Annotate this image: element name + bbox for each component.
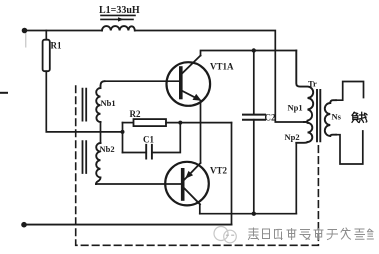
svg-text:Nb1: Nb1 [101,98,116,108]
watermark text 莫日根电气电子工作室 drawn glyphs [249,228,374,240]
terminal DC+ (top-left dot) [22,28,28,34]
capacitor C2 top lead [253,51,255,115]
svg-text:Nb2: Nb2 [100,144,115,154]
transistor VT2 lower diagonal [185,189,201,205]
winding Np1 (feed from collector rail, humps toward core) [296,51,313,123]
stray scan mark at left edge [0,92,7,94]
capacitor C2 bottom lead down to emitter rail [253,120,255,214]
svg-text:R2: R2 [130,109,141,119]
transistor VT1A collector diagonal [182,56,201,75]
wire: VT1A emitter to VT2 collector column [200,101,202,163]
wire: VT1A collector up to collector rail across to Np1 feed [201,51,297,56]
wire: R2 left lead [123,122,134,124]
transistor VT2 base bar [181,170,185,199]
winding Nb2 [96,143,101,184]
label 负载 (load) drawn glyphs [352,112,367,122]
watermark logo (two overlapping circles) [214,227,236,243]
svg-text:L1=33uH: L1=33uH [99,5,140,16]
wire: R1 bottom lead down and right to base bias node [46,71,122,132]
feedback transformer core (lower pair beside Nb2) [83,141,87,173]
resistor R2 body [134,119,167,126]
wire: Np2 return down and left along emitter rail [295,143,297,214]
L1 arrow line with right-pointing head [101,18,133,20]
svg-text:Np1: Np1 [288,103,303,113]
wire: Ns top lead to load [336,82,364,101]
wire: base node column (R2 left to C1 left) [122,123,124,153]
wire: C1 right lead and riser to R2 right node [152,123,180,153]
svg-text:VT2: VT2 [210,166,228,176]
wire: emitter rail to Np2 return [200,213,296,215]
faint stub under DC+ terminal [25,34,27,48]
inductor L1 coil [102,26,135,30]
wire: top rail from DC+ to L1 [25,30,103,32]
resistor R1 body [43,40,50,71]
transistor VT1A circle [167,62,211,106]
transistor VT1A emitter diagonal with arrow [182,91,200,100]
L1 underline [101,14,135,16]
dashed module border [76,86,319,245]
wire: bottom rail [24,224,232,226]
wire: R2/C1 return column down to bottom rail [231,123,233,225]
capacitor C1 plates [146,145,152,159]
node: C2 top junction dot [252,48,256,52]
terminal DC- (bottom-left dot) [21,222,27,228]
wire: VT2 emitter down to emitter rail [199,205,201,214]
winding Ns [325,100,336,136]
winding Np2 [296,123,312,143]
svg-text:Np2: Np2 [285,132,300,142]
svg-text:C2: C2 [265,113,276,123]
wire: R2 right lead to return column [166,122,232,124]
wire: Ns bottom lead to load [336,131,363,164]
wire: Nb winding junction column [100,122,102,143]
svg-text:C1: C1 [143,135,154,145]
svg-text:VT1A: VT1A [210,62,234,72]
node: R2/C1 right junction dot [178,121,182,125]
winding Nb1 [96,81,104,122]
wire: top rail from L1 to corner then down to transformer center tap [135,31,308,123]
feedback transformer core (upper pair beside Nb1) [83,89,87,121]
wire: R1 top lead [45,31,47,40]
transistor VT2 circle [165,162,209,206]
node: base bias junction dot [121,130,125,134]
svg-text:R1: R1 [51,41,62,51]
transistor VT1A base bar [179,68,183,98]
capacitor C2 plates [243,115,265,120]
wire: Nb1 top to VT1A base [105,80,182,82]
transformer Tr core [317,90,320,141]
transistor VT2 upper diagonal with inward arrow [185,163,201,180]
node: C2 bottom junction dot [252,212,256,216]
wire: Nb2 bottom to VT2 base [96,183,183,185]
svg-text:Ns: Ns [332,112,342,122]
wire: C1 left lead [123,152,147,154]
